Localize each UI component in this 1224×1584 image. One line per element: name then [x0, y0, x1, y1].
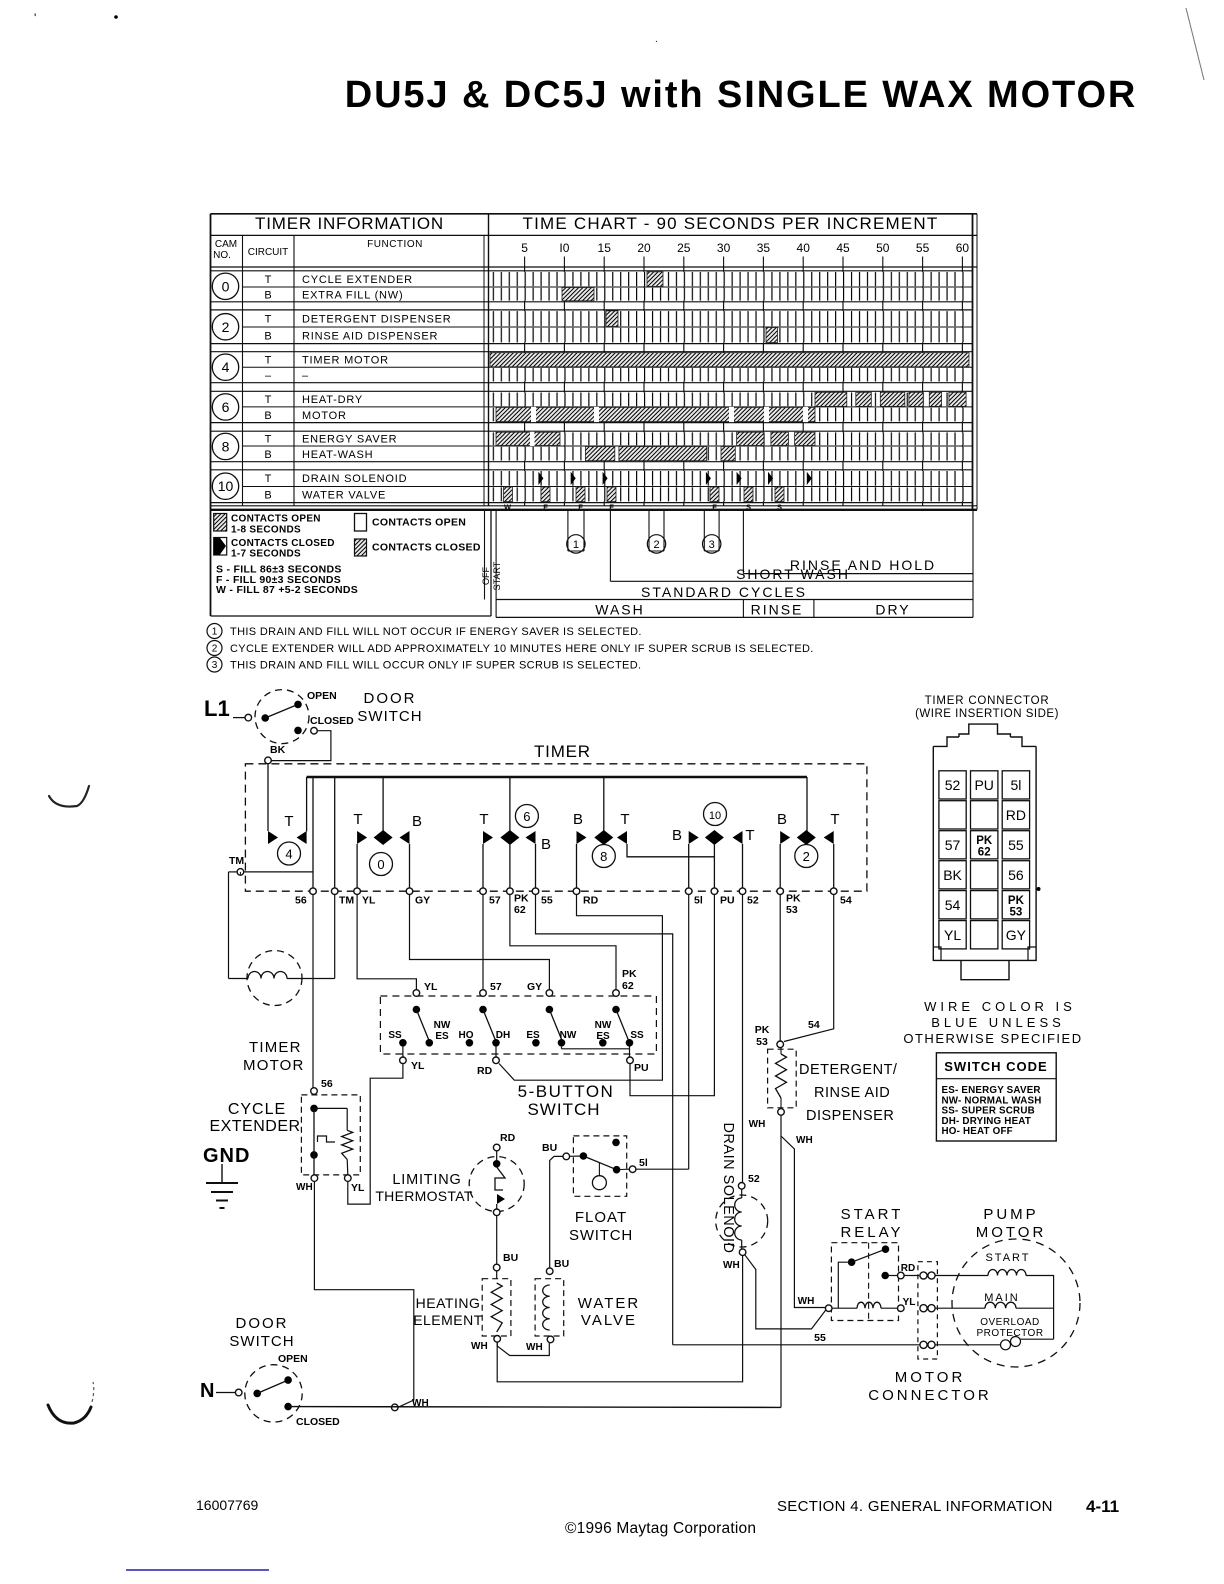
svg-text:B: B — [672, 827, 682, 844]
svg-text:TIMER: TIMER — [249, 1039, 302, 1056]
svg-text:T: T — [265, 355, 272, 367]
svg-text:WH: WH — [798, 1296, 815, 1307]
svg-text:6: 6 — [222, 399, 230, 415]
svg-text:': ' — [34, 11, 36, 25]
svg-text:54: 54 — [945, 897, 961, 913]
svg-text:–: – — [302, 370, 309, 382]
svg-text:DRAIN SOLENOID: DRAIN SOLENOID — [720, 1122, 736, 1253]
svg-text:RD: RD — [583, 895, 599, 907]
svg-text:WH: WH — [526, 1342, 543, 1353]
svg-text:GY: GY — [527, 981, 542, 993]
svg-text:DH: DH — [496, 1030, 510, 1041]
svg-text:1-8 SECONDS: 1-8 SECONDS — [231, 525, 301, 536]
svg-text:B: B — [264, 449, 271, 461]
svg-text:NO.: NO. — [213, 250, 231, 261]
svg-text:2: 2 — [803, 849, 810, 864]
svg-text:FUNCTION: FUNCTION — [367, 239, 423, 250]
svg-text:T: T — [745, 827, 754, 844]
svg-text:GY: GY — [1006, 927, 1027, 943]
svg-text:RINSE AID: RINSE AID — [814, 1085, 890, 1101]
svg-text:SWITCH: SWITCH — [527, 1100, 600, 1119]
svg-text:CYCLE EXTENDER WILL ADD APPROX: CYCLE EXTENDER WILL ADD APPROXIMATELY 10… — [230, 643, 814, 655]
svg-text:30: 30 — [717, 241, 731, 255]
svg-text:53: 53 — [756, 1036, 768, 1048]
svg-text:MOTOR: MOTOR — [243, 1057, 305, 1074]
svg-text:PU: PU — [974, 777, 993, 793]
svg-text:62: 62 — [514, 904, 526, 916]
svg-text:B: B — [264, 330, 271, 342]
svg-text:T: T — [265, 274, 272, 286]
svg-text:EXTENDER: EXTENDER — [209, 1118, 300, 1135]
svg-text:B: B — [264, 410, 271, 422]
svg-text:RINSE: RINSE — [751, 602, 804, 618]
svg-text:T: T — [479, 811, 488, 828]
svg-text:62: 62 — [622, 980, 634, 992]
svg-text:WATER: WATER — [578, 1295, 641, 1312]
svg-text:35: 35 — [757, 241, 771, 255]
svg-text:WH: WH — [749, 1119, 766, 1130]
svg-text:6: 6 — [523, 809, 530, 824]
svg-text:DETERGENT DISPENSER: DETERGENT DISPENSER — [302, 313, 451, 325]
svg-text:T: T — [620, 811, 629, 828]
svg-text:T: T — [265, 313, 272, 325]
svg-text:BLUE UNLESS: BLUE UNLESS — [931, 1015, 1065, 1030]
svg-text:TIMER MOTOR: TIMER MOTOR — [302, 355, 389, 367]
svg-text:HEAT-DRY: HEAT-DRY — [302, 394, 363, 406]
svg-text:CAM: CAM — [215, 239, 237, 250]
svg-text:DRAIN SOLENOID: DRAIN SOLENOID — [302, 473, 407, 485]
svg-text:ES: ES — [596, 1031, 610, 1042]
svg-text:HO: HO — [459, 1030, 474, 1041]
svg-text:BU: BU — [554, 1258, 569, 1270]
svg-text:DETERGENT/: DETERGENT/ — [799, 1062, 898, 1078]
svg-text:57: 57 — [490, 981, 502, 993]
svg-text:PK: PK — [755, 1024, 770, 1036]
svg-text:2: 2 — [212, 644, 218, 655]
svg-text:YL: YL — [424, 981, 438, 993]
svg-text:T: T — [265, 434, 272, 446]
svg-text:WH: WH — [471, 1341, 488, 1352]
svg-text:15: 15 — [598, 241, 612, 255]
svg-text:MOTOR: MOTOR — [976, 1224, 1047, 1241]
svg-text:57: 57 — [489, 895, 501, 907]
svg-text:53: 53 — [1010, 906, 1023, 918]
svg-text:PK: PK — [514, 893, 529, 905]
svg-text:OFF: OFF — [481, 567, 491, 585]
svg-text:CYCLE EXTENDER: CYCLE EXTENDER — [302, 274, 413, 286]
svg-text:MOTOR: MOTOR — [895, 1369, 966, 1386]
svg-text:©1996 Maytag Corporation: ©1996 Maytag Corporation — [565, 1520, 756, 1537]
svg-text:T: T — [830, 811, 839, 828]
svg-text:T: T — [265, 394, 272, 406]
svg-text:N: N — [200, 1380, 214, 1402]
svg-text:NW: NW — [434, 1020, 451, 1031]
svg-text:0: 0 — [377, 857, 384, 872]
svg-text:OTHERWISE SPECIFIED: OTHERWISE SPECIFIED — [903, 1031, 1082, 1046]
svg-text:EXTRA FILL (NW): EXTRA FILL (NW) — [302, 289, 403, 301]
svg-text:CONTACTS CLOSED: CONTACTS CLOSED — [231, 538, 335, 549]
svg-text:SHORT WASH: SHORT WASH — [736, 566, 850, 582]
svg-text:3: 3 — [709, 539, 715, 551]
svg-text:8: 8 — [600, 849, 607, 864]
svg-text:THIS DRAIN AND FILL WILL NOT O: THIS DRAIN AND FILL WILL NOT OCCUR IF EN… — [230, 626, 642, 638]
svg-text:OPEN: OPEN — [307, 690, 337, 702]
svg-text:YL: YL — [351, 1182, 365, 1194]
svg-text:CONTACTS OPEN: CONTACTS OPEN — [372, 517, 466, 529]
svg-text:ES: ES — [435, 1031, 449, 1042]
svg-text:RELAY: RELAY — [840, 1224, 903, 1241]
svg-text:45: 45 — [836, 241, 850, 255]
svg-text:SS: SS — [388, 1030, 402, 1041]
svg-text:SWITCH: SWITCH — [357, 708, 422, 725]
svg-text:57: 57 — [945, 837, 961, 853]
svg-text:PK: PK — [786, 893, 801, 905]
svg-text:YL: YL — [411, 1060, 425, 1072]
svg-text:WH: WH — [296, 1182, 313, 1193]
svg-text:ES: ES — [526, 1030, 540, 1041]
svg-text:CYCLE: CYCLE — [228, 1101, 286, 1118]
svg-text:BK: BK — [943, 867, 962, 883]
svg-text:1: 1 — [212, 627, 218, 638]
svg-text:WIRE COLOR IS: WIRE COLOR IS — [924, 999, 1076, 1014]
svg-text:NW: NW — [560, 1030, 577, 1041]
svg-text:MOTOR: MOTOR — [302, 410, 347, 422]
svg-text:HO- HEAT OFF: HO- HEAT OFF — [942, 1126, 1013, 1137]
svg-text:4: 4 — [222, 359, 230, 375]
svg-text:2: 2 — [222, 319, 230, 335]
svg-text:SWITCH: SWITCH — [569, 1227, 633, 1244]
svg-text:25: 25 — [677, 241, 691, 255]
svg-text:55: 55 — [541, 895, 553, 907]
svg-text:THIS DRAIN AND FILL WILL OCCUR: THIS DRAIN AND FILL WILL OCCUR ONLY IF S… — [230, 660, 641, 672]
svg-text:GY: GY — [415, 895, 430, 907]
svg-text:50: 50 — [876, 241, 890, 255]
svg-text:SWITCH: SWITCH — [229, 1333, 294, 1350]
svg-text:NW: NW — [595, 1020, 612, 1031]
svg-text:10: 10 — [218, 478, 234, 494]
svg-text:56: 56 — [321, 1078, 333, 1090]
svg-text:(WIRE INSERTION SIDE): (WIRE INSERTION SIDE) — [915, 708, 1059, 720]
svg-text:WATER VALVE: WATER VALVE — [302, 490, 386, 502]
svg-text:B: B — [264, 289, 271, 301]
svg-text:CONNECTOR: CONNECTOR — [868, 1387, 991, 1404]
svg-text:5l: 5l — [1010, 777, 1021, 793]
svg-text:VALVE: VALVE — [581, 1312, 637, 1329]
svg-text:W - FILL 87 +5-2 SECONDS: W - FILL 87 +5-2 SECONDS — [216, 584, 358, 596]
svg-text:40: 40 — [797, 241, 811, 255]
svg-text:I0: I0 — [559, 241, 569, 255]
svg-text:TIMER INFORMATION: TIMER INFORMATION — [255, 214, 444, 233]
svg-text:BU: BU — [503, 1252, 518, 1264]
svg-text:PU: PU — [634, 1062, 649, 1074]
svg-text:5-BUTTON: 5-BUTTON — [518, 1082, 615, 1101]
svg-text:2: 2 — [653, 539, 659, 551]
svg-text:CLOSED: CLOSED — [310, 715, 354, 727]
svg-text:52: 52 — [945, 777, 961, 793]
svg-text:FLOAT: FLOAT — [575, 1209, 627, 1226]
svg-text:56: 56 — [1008, 867, 1024, 883]
svg-text:PUMP: PUMP — [983, 1206, 1038, 1223]
svg-text:54: 54 — [840, 895, 852, 907]
svg-text:HEAT-WASH: HEAT-WASH — [302, 449, 373, 461]
svg-text:PROTECTOR: PROTECTOR — [976, 1328, 1043, 1339]
svg-text:55: 55 — [1008, 837, 1024, 853]
svg-text:PK: PK — [1008, 895, 1025, 907]
svg-text:TM: TM — [229, 855, 244, 867]
svg-text:TIMER CONNECTOR: TIMER CONNECTOR — [925, 695, 1050, 707]
svg-text:52: 52 — [747, 895, 759, 907]
svg-text:62: 62 — [978, 846, 991, 858]
svg-text:PK: PK — [976, 835, 993, 847]
svg-text:BK: BK — [270, 744, 286, 756]
svg-text:T: T — [265, 473, 272, 485]
svg-text:STANDARD CYCLES: STANDARD CYCLES — [641, 584, 807, 600]
svg-text:DRY: DRY — [875, 602, 910, 618]
svg-text:5l: 5l — [639, 1157, 648, 1169]
svg-text:GND: GND — [203, 1145, 250, 1167]
svg-text:5: 5 — [521, 241, 528, 255]
svg-text:55: 55 — [916, 241, 930, 255]
svg-text:3: 3 — [212, 660, 218, 671]
svg-text:THERMOSTAT: THERMOSTAT — [375, 1188, 473, 1204]
svg-text:YL: YL — [903, 1297, 916, 1308]
svg-text:56: 56 — [295, 895, 307, 907]
svg-text:RINSE AID DISPENSER: RINSE AID DISPENSER — [302, 330, 438, 342]
svg-text:YL: YL — [362, 895, 376, 907]
svg-text:CONTACTS OPEN: CONTACTS OPEN — [231, 514, 321, 525]
svg-text:OPEN: OPEN — [278, 1353, 308, 1365]
svg-text:DISPENSER: DISPENSER — [806, 1108, 894, 1124]
svg-text:4: 4 — [285, 847, 292, 862]
svg-text:8: 8 — [222, 438, 230, 454]
svg-text:ELEMENT: ELEMENT — [413, 1312, 483, 1328]
svg-text:DU5J & DC5J with SINGLE WAX: DU5J & DC5J with SINGLE WAX MOTOR — [345, 74, 1138, 116]
svg-text:TIMER: TIMER — [534, 742, 591, 761]
svg-text:WH: WH — [796, 1135, 813, 1146]
svg-text:B: B — [412, 813, 422, 830]
svg-text:54: 54 — [808, 1019, 820, 1031]
svg-text:START: START — [492, 561, 502, 590]
svg-text:1-7 SECONDS: 1-7 SECONDS — [231, 549, 301, 560]
svg-text:60: 60 — [956, 241, 970, 255]
svg-text:53: 53 — [786, 904, 798, 916]
svg-text:4-11: 4-11 — [1086, 1497, 1119, 1516]
svg-text:52: 52 — [748, 1173, 760, 1185]
svg-text:CLOSED: CLOSED — [296, 1416, 340, 1428]
svg-text:–: – — [265, 370, 272, 382]
svg-text:0: 0 — [222, 278, 230, 294]
svg-text:B: B — [541, 836, 551, 853]
svg-text:PK: PK — [622, 968, 637, 980]
svg-text:10: 10 — [709, 810, 721, 822]
svg-text:RD: RD — [477, 1065, 493, 1077]
svg-text:START: START — [985, 1252, 1030, 1264]
svg-text:SS: SS — [630, 1030, 644, 1041]
svg-text:RD: RD — [1006, 807, 1026, 823]
svg-text:T: T — [284, 813, 293, 830]
svg-text:ENERGY SAVER: ENERGY SAVER — [302, 434, 397, 446]
svg-text:T: T — [353, 811, 362, 828]
svg-text:LIMITING: LIMITING — [392, 1172, 461, 1188]
svg-text:WH: WH — [723, 1260, 740, 1271]
svg-text:DOOR: DOOR — [364, 690, 417, 707]
svg-text:55: 55 — [814, 1332, 826, 1344]
svg-text:SECTION 4. GENERAL INFORMATIO: SECTION 4. GENERAL INFORMATION — [777, 1498, 1053, 1515]
svg-text:16007769: 16007769 — [196, 1497, 259, 1513]
svg-text:B: B — [264, 490, 271, 502]
svg-text:YL: YL — [944, 927, 961, 943]
svg-text:B: B — [777, 811, 787, 828]
svg-text:CONTACTS CLOSED: CONTACTS CLOSED — [372, 542, 481, 554]
svg-text:OVERLOAD: OVERLOAD — [980, 1317, 1040, 1328]
svg-text:TIME CHART - 90 SECONDS PER IN: TIME CHART - 90 SECONDS PER INCREMENT — [523, 214, 939, 233]
svg-text:L1: L1 — [204, 696, 230, 721]
svg-text:SWITCH CODE: SWITCH CODE — [944, 1059, 1047, 1074]
svg-text:PU: PU — [720, 895, 735, 907]
svg-text:B: B — [573, 811, 583, 828]
svg-text:HEATING: HEATING — [416, 1295, 481, 1311]
svg-text:.: . — [655, 34, 658, 45]
svg-text:RD: RD — [901, 1263, 915, 1274]
svg-text:20: 20 — [637, 241, 651, 255]
svg-text:START: START — [841, 1206, 904, 1223]
svg-text:RD: RD — [500, 1132, 516, 1144]
svg-text:DOOR: DOOR — [236, 1315, 289, 1332]
svg-text:TM: TM — [339, 895, 354, 907]
svg-text:BU: BU — [542, 1142, 557, 1154]
svg-text:CIRCUIT: CIRCUIT — [248, 247, 289, 258]
svg-text:5l: 5l — [694, 895, 703, 907]
svg-text:1: 1 — [573, 539, 579, 551]
svg-text:WASH: WASH — [595, 602, 644, 618]
